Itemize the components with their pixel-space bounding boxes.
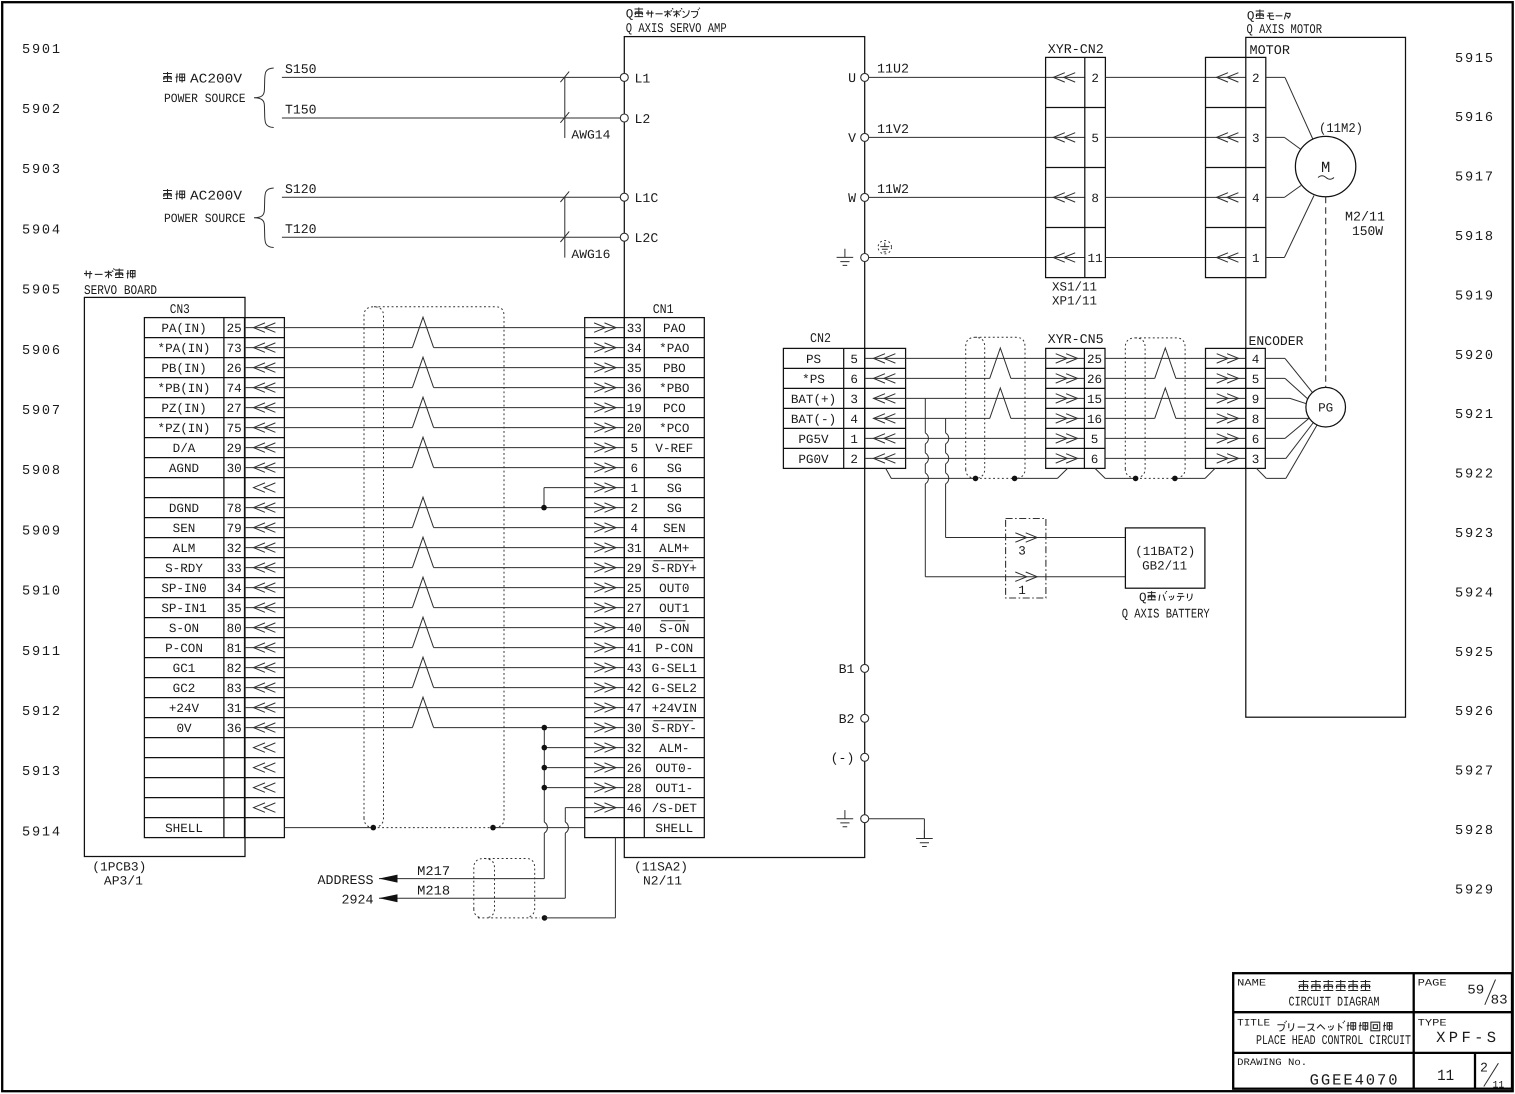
svg-text:OUT1-: OUT1-: [655, 782, 693, 796]
wire M218 to address bus: [379, 897, 565, 899]
svg-text:L2: L2: [635, 112, 651, 127]
wire PG5V CN2 to XYR-CN5: [865, 437, 1085, 439]
svg-text:AC200V: AC200V: [190, 72, 242, 87]
svg-text:(-): (-): [831, 751, 855, 766]
svg-text:25: 25: [227, 322, 242, 336]
svg-text:OUT0-: OUT0-: [655, 762, 693, 776]
shield wire to PG: [1266, 477, 1286, 479]
svg-text:XPF-S: XPF-S: [1436, 1029, 1496, 1047]
svg-text:25: 25: [1087, 353, 1102, 367]
svg-text:L1: L1: [635, 71, 651, 86]
svg-text:PB(IN): PB(IN): [161, 362, 206, 376]
battery GB2/11 (11BAT2): [1125, 528, 1205, 588]
connector MOTOR: [1206, 43, 1290, 277]
svg-text:30: 30: [227, 462, 242, 476]
wire CN1 shell drain: [545, 917, 616, 919]
svg-text:5911: 5911: [22, 645, 60, 660]
svg-text:TITLE: TITLE: [1237, 1017, 1270, 1028]
svg-text:2: 2: [631, 502, 639, 516]
wire D/A CN3 to CN1: [245, 447, 625, 449]
wire encoder pin5 to PG: [1265, 377, 1285, 379]
terminal L2: [620, 114, 628, 122]
shield wire CN5 to encoder: [1105, 477, 1135, 479]
ground symbol at amp PE terminal: [837, 249, 854, 266]
svg-text:2: 2: [1252, 72, 1260, 86]
svg-text:3: 3: [850, 393, 858, 407]
wire motor pin4 to motor: [1266, 196, 1285, 198]
svg-text:5921: 5921: [1455, 408, 1493, 423]
svg-text:XS1/11: XS1/11: [1052, 281, 1097, 295]
title block TYPE cell: [1418, 1017, 1497, 1047]
wire SP-IN0 CN3 to CN1: [245, 587, 625, 589]
svg-text:P-CON: P-CON: [655, 642, 693, 656]
svg-text:SHELL: SHELL: [165, 822, 203, 836]
terminal V: [861, 133, 869, 141]
svg-text:POWER SOURCE: POWER SOURCE: [164, 212, 246, 226]
terminal B1: [861, 664, 869, 672]
svg-text:29: 29: [227, 442, 242, 456]
svg-text:SEN: SEN: [173, 522, 196, 536]
svg-text:80: 80: [227, 622, 242, 636]
svg-text:CN3: CN3: [170, 302, 190, 317]
svg-text:5916: 5916: [1455, 111, 1493, 126]
svg-text:*PA(IN): *PA(IN): [158, 342, 211, 356]
svg-text:26: 26: [227, 362, 242, 376]
svg-text:SERVO BOARD: SERVO BOARD: [84, 283, 157, 298]
right margin line numbers 5915-5929: [1455, 52, 1493, 899]
svg-text:5926: 5926: [1455, 705, 1493, 720]
svg-text:5: 5: [631, 442, 639, 456]
svg-text:POWER SOURCE: POWER SOURCE: [164, 92, 246, 106]
svg-text:G-SEL2: G-SEL2: [652, 682, 697, 696]
svg-text:35: 35: [627, 362, 642, 376]
svg-text:25: 25: [627, 582, 642, 596]
svg-text:U: U: [848, 71, 856, 86]
terminal (-): [861, 753, 869, 761]
wire W to XYR-CN2 pin8 11W2: [869, 196, 1085, 198]
svg-text:34: 34: [227, 582, 242, 596]
svg-text:1: 1: [1018, 584, 1026, 598]
svg-text:27: 27: [227, 402, 242, 416]
svg-text:M2/11: M2/11: [1345, 210, 1385, 225]
title block TITLE cell: [1237, 1017, 1411, 1048]
battery connector (dash-dot): [1006, 519, 1046, 599]
connector CN1 on servo amp: [585, 302, 705, 837]
wire bus to OUT1-: [544, 787, 624, 789]
wire GC2 CN3 to CN1: [245, 687, 413, 689]
connector XYR-CN5: [1046, 332, 1105, 469]
svg-text:5909: 5909: [22, 524, 60, 539]
wire SHELL CN3 to CN1: [284, 827, 373, 829]
terminal L2C: [620, 233, 628, 241]
svg-text:*PAO: *PAO: [659, 342, 689, 356]
wire BAT(-) CN2 to XYR-CN5: [874, 417, 990, 419]
wire PA CN3 to CN1: [245, 327, 625, 329]
svg-text:11: 11: [1088, 252, 1103, 266]
svg-text:5918: 5918: [1455, 230, 1493, 245]
svg-text:5919: 5919: [1455, 289, 1493, 304]
left margin line numbers 5901-5914: [22, 43, 60, 841]
wire encoder pin8 to PG: [1265, 417, 1309, 419]
servo amp U1 (Q AXIS SERVO AMP) outline: [624, 37, 864, 858]
svg-text:SP-IN1: SP-IN1: [161, 602, 206, 616]
svg-text:SHELL: SHELL: [655, 822, 693, 836]
cable shield oval M217/M218: [474, 859, 535, 918]
svg-text:2924: 2924: [342, 892, 374, 907]
svg-text:1: 1: [631, 482, 639, 496]
wire encoder pin6 to PG: [1265, 437, 1285, 439]
Q axis motor box outline: [1246, 37, 1406, 717]
svg-text:5908: 5908: [22, 464, 60, 479]
svg-text:*PS: *PS: [802, 373, 825, 387]
wire DGND CN3 to CN1: [245, 507, 625, 509]
svg-text:43: 43: [627, 662, 642, 676]
svg-text:S-RDY-: S-RDY-: [652, 722, 697, 736]
svg-text:PBO: PBO: [663, 362, 686, 376]
wire XYR-CN5 to ENCODER row 25-4: [1105, 357, 1246, 359]
dashed shaft line motor to PG: [1325, 197, 1327, 388]
svg-text:4: 4: [1252, 192, 1260, 206]
svg-text:29: 29: [627, 562, 642, 576]
shield skirt XYR-CN5: [1057, 468, 1105, 478]
svg-text:32: 32: [227, 542, 242, 556]
label SERVO BOARD: [84, 268, 157, 298]
svg-text:15: 15: [1087, 393, 1102, 407]
shield drain CN2: [886, 468, 976, 478]
svg-text:L1C: L1C: [635, 191, 659, 206]
svg-text:5902: 5902: [22, 103, 60, 118]
label power source 1 (AC200V): [163, 72, 246, 107]
terminal B2: [861, 714, 869, 722]
cable shield outline CN5-ENCODER: [1125, 338, 1185, 478]
terminal L1: [620, 73, 628, 81]
wire S120 to L1C: [282, 196, 620, 198]
wire /S-DET to M218: [565, 807, 624, 809]
svg-text:S120: S120: [285, 182, 317, 197]
svg-text:W: W: [848, 191, 856, 206]
svg-text:11: 11: [1437, 1067, 1454, 1085]
svg-text:/S-DET: /S-DET: [652, 802, 698, 816]
wire motor pin3 to motor: [1266, 136, 1285, 138]
svg-text:TYPE: TYPE: [1418, 1017, 1447, 1028]
svg-text:PLACE HEAD CONTROL CIRCUIT: PLACE HEAD CONTROL CIRCUIT: [1256, 1033, 1411, 1048]
svg-text:ENCODER: ENCODER: [1249, 334, 1304, 349]
svg-text:G-SEL1: G-SEL1: [652, 662, 697, 676]
svg-text:P-CON: P-CON: [165, 642, 203, 656]
wire motor pin1 to motor: [1266, 257, 1285, 259]
wire ALM CN3 to CN1: [245, 547, 625, 549]
svg-text:AGND: AGND: [169, 462, 199, 476]
svg-text:Q: Q: [1139, 591, 1147, 605]
servo board box (1PCB3): [84, 297, 245, 856]
wire XYR-CN5 to ENCODER row 16-8: [1105, 417, 1155, 419]
svg-text:BAT(-): BAT(-): [791, 413, 836, 427]
earth symbol on ground wire: [878, 241, 891, 254]
svg-text:GC1: GC1: [173, 662, 196, 676]
wire S150 to L1: [282, 76, 620, 78]
title block PAGE cell: [1418, 977, 1508, 1007]
svg-text:5915: 5915: [1455, 52, 1493, 67]
wire *PS CN2 to XYR-CN5: [865, 377, 990, 379]
cable shield outline CN3-CN1: [364, 307, 504, 828]
svg-text:35: 35: [227, 602, 242, 616]
svg-text:S-RDY: S-RDY: [165, 562, 203, 576]
svg-text:AWG14: AWG14: [571, 128, 610, 142]
label Q AXIS BATTERY: [1122, 591, 1210, 622]
svg-text:B2: B2: [839, 712, 855, 727]
svg-text:(1PCB3): (1PCB3): [92, 860, 146, 874]
svg-text:DGND: DGND: [169, 502, 199, 516]
svg-text:81: 81: [227, 642, 242, 656]
svg-text:5922: 5922: [1455, 468, 1493, 483]
wire XYR-CN5 to ENCODER row 5-6: [1105, 437, 1246, 439]
wire AGND CN3 to CN1: [245, 467, 413, 469]
junction dot 0V/S-RDY-: [542, 725, 548, 731]
svg-text:28: 28: [627, 782, 642, 796]
svg-text:Q AXIS MOTOR: Q AXIS MOTOR: [1247, 22, 1323, 37]
svg-text:5: 5: [1091, 132, 1099, 146]
svg-text:5: 5: [1091, 433, 1099, 447]
svg-text:6: 6: [1091, 453, 1099, 467]
label power source 2 (AC200V): [163, 189, 246, 227]
svg-text:4: 4: [631, 522, 639, 536]
svg-text:0V: 0V: [176, 722, 192, 736]
wire PB CN3 to CN1: [245, 367, 625, 369]
svg-text:V: V: [848, 131, 856, 146]
svg-text:S150: S150: [285, 62, 317, 77]
svg-text:T150: T150: [285, 103, 317, 118]
wire T150 to L2: [282, 117, 620, 119]
svg-text:(11M2): (11M2): [1319, 121, 1363, 136]
label Q AXIS MOTOR: [1247, 9, 1323, 37]
svg-text:SEN: SEN: [663, 522, 686, 536]
svg-text:SG: SG: [667, 462, 682, 476]
svg-text:Q AXIS SERVO AMP: Q AXIS SERVO AMP: [626, 21, 727, 36]
svg-text:BAT(+): BAT(+): [791, 393, 836, 407]
connector XYR-CN2: [1046, 42, 1106, 309]
wire encoder pin4 to PG: [1265, 357, 1285, 359]
svg-text:5929: 5929: [1455, 883, 1493, 898]
svg-text:M217: M217: [417, 864, 450, 879]
svg-text:11U2: 11U2: [877, 62, 909, 77]
brace power source 1: [254, 68, 274, 128]
ground symbol at amp ground terminal: [837, 810, 854, 827]
svg-text:33: 33: [627, 322, 642, 336]
svg-text:8: 8: [1091, 192, 1099, 206]
wires XYR-CN2 to MOTOR connector: [1105, 76, 1245, 78]
svg-text:36: 36: [227, 722, 242, 736]
svg-text:1: 1: [850, 433, 858, 447]
wire V to XYR-CN2 pin5 11V2: [869, 136, 1085, 138]
svg-text:150W: 150W: [1352, 224, 1383, 239]
terminal U: [861, 73, 869, 81]
connector CN3 on servo board: [144, 302, 284, 837]
svg-text:NAME: NAME: [1237, 977, 1266, 988]
svg-text:3: 3: [1252, 453, 1260, 467]
svg-text:6: 6: [631, 462, 639, 476]
svg-text:4: 4: [850, 413, 858, 427]
svg-text:6: 6: [1252, 433, 1260, 447]
shield dots on SHELL wire: [371, 825, 377, 831]
svg-text:6: 6: [850, 373, 858, 387]
wire P-CON CN3 to CN1: [245, 647, 413, 649]
svg-text:36: 36: [627, 382, 642, 396]
svg-text:XP1/11: XP1/11: [1052, 295, 1097, 309]
svg-text:ALM-: ALM-: [659, 742, 689, 756]
svg-text:5910: 5910: [22, 585, 60, 600]
AWG14 wire gauge marker: [560, 72, 610, 143]
svg-text:8: 8: [1252, 413, 1260, 427]
wire PE to XYR-CN2 pin11: [869, 257, 1085, 259]
svg-text:*PB(IN): *PB(IN): [158, 382, 211, 396]
svg-text:GGEE4070: GGEE4070: [1310, 1072, 1398, 1090]
svg-text:78: 78: [227, 502, 242, 516]
svg-text:11: 11: [1493, 1080, 1505, 1091]
svg-text:AWG16: AWG16: [571, 248, 610, 262]
svg-text:PAO: PAO: [663, 322, 686, 336]
svg-text:5906: 5906: [22, 344, 60, 359]
svg-text:CIRCUIT DIAGRAM: CIRCUIT DIAGRAM: [1289, 995, 1380, 1010]
wire bus to OUT0-: [544, 767, 624, 769]
svg-text:5914: 5914: [22, 825, 60, 840]
connector CN2 on servo amp: [783, 331, 905, 469]
svg-text:SP-IN0: SP-IN0: [161, 582, 206, 596]
wire U to XYR-CN2 pin2 11U2: [869, 76, 1085, 78]
svg-text:B1: B1: [839, 662, 855, 677]
wire motor pin2 to motor: [1266, 76, 1285, 78]
shield skirt ENCODER: [1205, 468, 1266, 478]
terminal L1C: [620, 193, 628, 201]
svg-text:5912: 5912: [22, 705, 60, 720]
svg-text:16: 16: [1087, 413, 1102, 427]
svg-text:83: 83: [1491, 993, 1508, 1008]
svg-text:L2C: L2C: [635, 231, 659, 246]
svg-text:5: 5: [1252, 373, 1260, 387]
wire XYR-CN5 to ENCODER row 15-9: [1105, 397, 1246, 399]
label Q AXIS SERVO AMP: [626, 7, 727, 36]
svg-text:47: 47: [627, 702, 642, 716]
connector ENCODER: [1206, 334, 1304, 469]
svg-text:PS: PS: [806, 353, 821, 367]
svg-text:83: 83: [227, 682, 242, 696]
svg-text:DRAWING No.: DRAWING No.: [1237, 1057, 1307, 1068]
svg-text:3: 3: [1018, 545, 1026, 559]
wire PS CN2 to XYR-CN5: [865, 357, 1085, 359]
svg-text:5913: 5913: [22, 765, 60, 780]
svg-text:SG: SG: [667, 502, 682, 516]
svg-text:Q: Q: [626, 8, 634, 22]
wire S-ON CN3 to CN1: [245, 627, 625, 629]
wire SP-IN1 CN3 to CN1: [245, 607, 413, 609]
svg-text:OUT0: OUT0: [659, 582, 689, 596]
svg-text:D/A: D/A: [173, 442, 196, 456]
junction dot SG: [541, 505, 547, 511]
svg-text:2: 2: [1091, 72, 1099, 86]
svg-text:5905: 5905: [22, 284, 60, 299]
shield dots CN2 cable: [973, 476, 979, 482]
encoder PG circle: [1306, 387, 1346, 427]
svg-text:PZ(IN): PZ(IN): [161, 402, 206, 416]
shield dots CN5-encoder cable: [1133, 476, 1139, 482]
wire SEN CN3 to CN1: [245, 527, 413, 529]
ground symbol earth: [916, 830, 933, 847]
svg-text:74: 74: [227, 382, 242, 396]
svg-text:33: 33: [227, 562, 242, 576]
svg-text:ALM: ALM: [173, 542, 196, 556]
svg-text:(11BAT2): (11BAT2): [1135, 545, 1195, 559]
wire M217 to address bus: [379, 878, 544, 880]
svg-text:AP3/1: AP3/1: [104, 874, 143, 888]
svg-text:32: 32: [627, 742, 642, 756]
terminal amp ground: [861, 815, 869, 823]
junction dot cable shield to CN1 shell: [542, 915, 548, 921]
svg-text:OUT1: OUT1: [659, 602, 689, 616]
wire bus to ALM-: [544, 747, 624, 749]
motor M1 (11M2) circle: [1295, 136, 1355, 196]
svg-text:31: 31: [227, 702, 242, 716]
svg-text:2: 2: [1480, 1061, 1488, 1076]
svg-text:75: 75: [227, 422, 242, 436]
svg-text:59: 59: [1467, 982, 1484, 997]
svg-text:5917: 5917: [1455, 171, 1493, 186]
wire 0V bus vertical: [543, 728, 545, 823]
svg-text:2: 2: [850, 453, 858, 467]
wire +24V CN3 to CN1: [245, 707, 625, 709]
svg-text:4: 4: [1252, 353, 1260, 367]
wire XYR-CN5 to ENCODER row 6-3: [1105, 457, 1246, 459]
svg-text:5924: 5924: [1455, 586, 1493, 601]
wire encoder pin9 to PG: [1265, 397, 1290, 399]
svg-text:*PCO: *PCO: [659, 422, 689, 436]
svg-text:1: 1: [1252, 252, 1260, 266]
svg-text:PAGE: PAGE: [1418, 977, 1447, 988]
wire SG jumper to CN1 pin 1: [544, 487, 624, 489]
title block DRAWING cell: [1237, 1057, 1504, 1091]
svg-text:5920: 5920: [1455, 349, 1493, 364]
svg-text:+24VIN: +24VIN: [652, 702, 697, 716]
cable shield outline CN2-CN5: [966, 337, 1025, 478]
terminal W: [861, 193, 869, 201]
svg-text:T120: T120: [285, 222, 317, 237]
svg-text:SG: SG: [667, 482, 682, 496]
svg-text:AC200V: AC200V: [190, 189, 242, 204]
svg-text:CN1: CN1: [653, 302, 674, 317]
svg-text:42: 42: [627, 682, 642, 696]
AWG16 wire gauge marker: [560, 191, 610, 262]
svg-text:5901: 5901: [22, 43, 60, 58]
svg-text:5904: 5904: [22, 223, 60, 238]
svg-text:GB2/11: GB2/11: [1142, 560, 1187, 574]
svg-text:ADDRESS: ADDRESS: [318, 873, 374, 888]
wire amp ground to earth: [869, 818, 925, 820]
svg-text:40: 40: [627, 622, 642, 636]
svg-text:5907: 5907: [22, 404, 60, 419]
svg-text:PG0V: PG0V: [798, 453, 829, 467]
svg-text:(11SA2): (11SA2): [634, 861, 688, 875]
wire 0V CN3 to CN1: [245, 727, 413, 729]
svg-text:20: 20: [627, 422, 642, 436]
svg-text:5928: 5928: [1455, 824, 1493, 839]
svg-text:34: 34: [627, 342, 642, 356]
svg-text:ALM+: ALM+: [659, 542, 689, 556]
brace power source 2: [254, 188, 274, 248]
svg-text:79: 79: [227, 522, 242, 536]
wire PG0V CN2 to XYR-CN5: [865, 457, 1085, 459]
svg-text:41: 41: [627, 642, 642, 656]
svg-text:19: 19: [627, 402, 642, 416]
wire *PB CN3 to CN1: [245, 387, 413, 389]
svg-text:XYR-CN5: XYR-CN5: [1048, 332, 1104, 347]
